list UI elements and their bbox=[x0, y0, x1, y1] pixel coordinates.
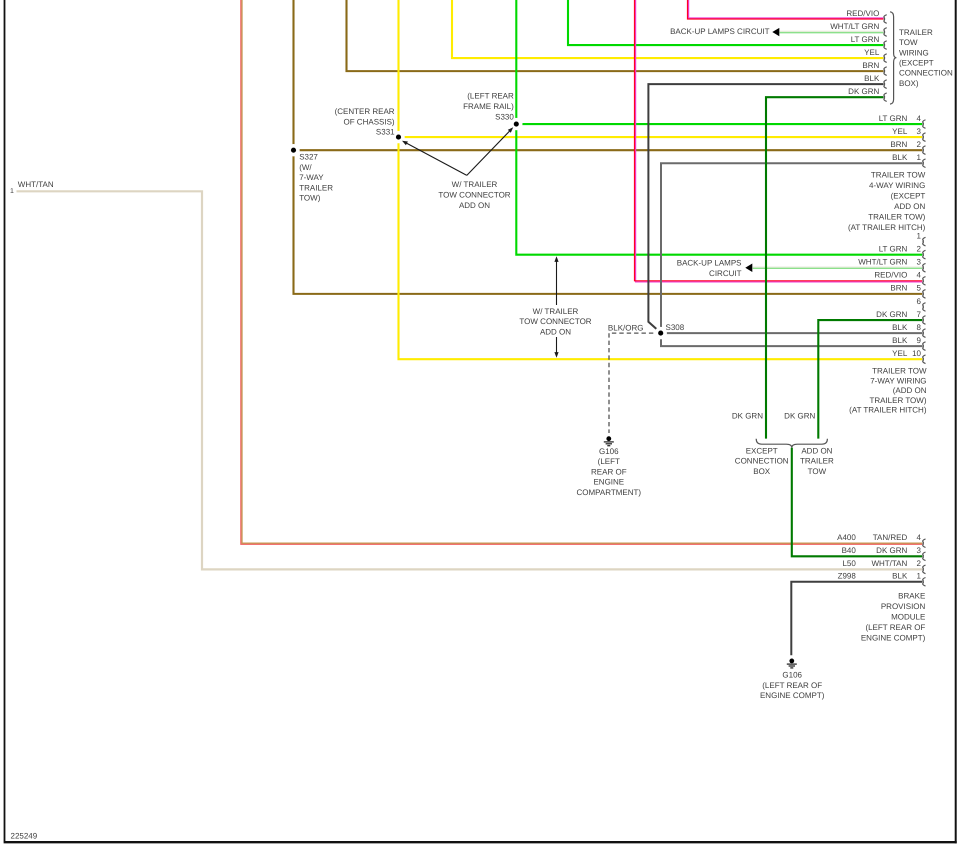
svg-text:1: 1 bbox=[10, 188, 14, 195]
svg-text:TRAILER: TRAILER bbox=[299, 183, 333, 192]
svg-text:ADD ON: ADD ON bbox=[894, 202, 925, 211]
svg-text:BRN: BRN bbox=[890, 140, 907, 149]
svg-text:7: 7 bbox=[917, 310, 922, 319]
svg-text:(LEFT REAR OF: (LEFT REAR OF bbox=[762, 681, 822, 690]
svg-text:ENGINE COMPT): ENGINE COMPT) bbox=[861, 633, 926, 642]
svg-text:2: 2 bbox=[917, 244, 922, 253]
svg-text:TRAILER: TRAILER bbox=[899, 28, 933, 37]
svg-text:G106: G106 bbox=[782, 671, 802, 680]
svg-text:B40: B40 bbox=[842, 546, 857, 555]
svg-text:WHT/LT GRN: WHT/LT GRN bbox=[830, 22, 879, 31]
svg-text:REAR OF: REAR OF bbox=[591, 467, 627, 476]
svg-text:(W/: (W/ bbox=[299, 163, 312, 172]
svg-text:S327: S327 bbox=[299, 153, 318, 162]
svg-text:ADD ON: ADD ON bbox=[459, 201, 490, 210]
svg-text:4: 4 bbox=[917, 533, 922, 542]
svg-text:BLK: BLK bbox=[892, 323, 908, 332]
svg-text:TRAILER TOW: TRAILER TOW bbox=[871, 171, 926, 180]
svg-text:G106: G106 bbox=[599, 447, 619, 456]
svg-text:COMPARTMENT): COMPARTMENT) bbox=[577, 488, 642, 497]
svg-text:3: 3 bbox=[917, 546, 922, 555]
svg-text:YEL: YEL bbox=[892, 349, 908, 358]
svg-text:9: 9 bbox=[917, 336, 922, 345]
svg-text:(AT TRAILER HITCH): (AT TRAILER HITCH) bbox=[848, 223, 926, 232]
svg-text:S331: S331 bbox=[376, 128, 395, 137]
svg-text:BOX: BOX bbox=[753, 467, 771, 476]
svg-text:ADD ON: ADD ON bbox=[801, 446, 832, 455]
svg-text:7-WAY WIRING: 7-WAY WIRING bbox=[870, 376, 926, 385]
svg-text:(LEFT REAR OF: (LEFT REAR OF bbox=[865, 623, 925, 632]
svg-text:2: 2 bbox=[917, 140, 922, 149]
svg-text:TOW): TOW) bbox=[299, 194, 321, 203]
svg-text:DK GRN: DK GRN bbox=[876, 310, 907, 319]
svg-text:WHT/TAN: WHT/TAN bbox=[18, 180, 54, 189]
svg-text:TOW CONNECTOR: TOW CONNECTOR bbox=[438, 191, 510, 200]
svg-text:BRN: BRN bbox=[890, 284, 907, 293]
svg-text:BLK/ORG: BLK/ORG bbox=[608, 323, 644, 332]
svg-text:LT GRN: LT GRN bbox=[879, 114, 908, 123]
svg-text:4: 4 bbox=[917, 114, 922, 123]
svg-text:TOW: TOW bbox=[899, 38, 918, 47]
svg-text:3: 3 bbox=[917, 258, 922, 267]
svg-text:S308: S308 bbox=[666, 323, 685, 332]
svg-text:DK GRN: DK GRN bbox=[784, 411, 815, 420]
svg-text:W/ TRAILER: W/ TRAILER bbox=[452, 180, 498, 189]
svg-text:LT GRN: LT GRN bbox=[851, 35, 880, 44]
svg-text:4-WAY WIRING: 4-WAY WIRING bbox=[869, 181, 925, 190]
svg-text:YEL: YEL bbox=[892, 127, 908, 136]
svg-text:2: 2 bbox=[917, 559, 922, 568]
svg-text:PROVISION: PROVISION bbox=[881, 602, 926, 611]
svg-text:DK GRN: DK GRN bbox=[732, 411, 763, 420]
svg-text:BLK: BLK bbox=[864, 74, 880, 83]
svg-text:(LEFT: (LEFT bbox=[598, 457, 620, 466]
svg-text:TRAILER TOW: TRAILER TOW bbox=[872, 367, 927, 376]
svg-text:(EXCEPT: (EXCEPT bbox=[891, 192, 926, 201]
svg-text:ENGINE: ENGINE bbox=[593, 478, 624, 487]
svg-text:FRAME RAIL): FRAME RAIL) bbox=[463, 102, 514, 111]
svg-text:6: 6 bbox=[917, 297, 922, 306]
svg-text:DK GRN: DK GRN bbox=[876, 546, 907, 555]
svg-text:4: 4 bbox=[917, 271, 922, 280]
svg-text:10: 10 bbox=[912, 349, 921, 358]
svg-text:A400: A400 bbox=[837, 533, 856, 542]
svg-text:MODULE: MODULE bbox=[891, 612, 925, 621]
svg-text:TOW CONNECTOR: TOW CONNECTOR bbox=[519, 317, 591, 326]
svg-text:3: 3 bbox=[917, 127, 922, 136]
svg-text:RED/VIO: RED/VIO bbox=[874, 271, 907, 280]
svg-text:BLK: BLK bbox=[892, 572, 908, 581]
svg-text:(LEFT REAR: (LEFT REAR bbox=[467, 92, 514, 101]
svg-text:TAN/RED: TAN/RED bbox=[873, 533, 908, 542]
svg-text:S330: S330 bbox=[495, 112, 514, 121]
svg-text:CONNECTION: CONNECTION bbox=[735, 457, 789, 466]
svg-text:CIRCUIT: CIRCUIT bbox=[709, 269, 742, 278]
svg-text:DK GRN: DK GRN bbox=[848, 87, 879, 96]
svg-text:RED/VIO: RED/VIO bbox=[846, 9, 879, 18]
svg-text:1: 1 bbox=[917, 572, 922, 581]
svg-text:EXCEPT: EXCEPT bbox=[746, 446, 778, 455]
svg-text:7-WAY: 7-WAY bbox=[299, 173, 324, 182]
svg-text:BACK-UP LAMPS: BACK-UP LAMPS bbox=[677, 259, 742, 268]
svg-text:WIRING: WIRING bbox=[899, 48, 929, 57]
svg-text:CONNECTION: CONNECTION bbox=[899, 69, 953, 78]
svg-text:BRAKE: BRAKE bbox=[898, 591, 925, 600]
svg-text:OF CHASSIS): OF CHASSIS) bbox=[343, 117, 394, 126]
svg-text:5: 5 bbox=[917, 284, 922, 293]
svg-text:BOX): BOX) bbox=[899, 79, 919, 88]
svg-text:TRAILER TOW): TRAILER TOW) bbox=[868, 213, 925, 222]
svg-text:TOW: TOW bbox=[808, 467, 827, 476]
svg-text:W/ TRAILER: W/ TRAILER bbox=[533, 307, 579, 316]
svg-text:Z998: Z998 bbox=[838, 572, 857, 581]
svg-text:WHT/TAN: WHT/TAN bbox=[871, 559, 907, 568]
svg-text:1: 1 bbox=[917, 153, 922, 162]
svg-text:YEL: YEL bbox=[864, 48, 880, 57]
svg-text:(ADD ON: (ADD ON bbox=[893, 386, 927, 395]
svg-text:BACK-UP LAMPS CIRCUIT: BACK-UP LAMPS CIRCUIT bbox=[670, 27, 770, 36]
svg-text:1: 1 bbox=[917, 231, 922, 240]
svg-text:LT GRN: LT GRN bbox=[879, 244, 908, 253]
svg-text:BLK: BLK bbox=[892, 153, 908, 162]
svg-text:(AT TRAILER HITCH): (AT TRAILER HITCH) bbox=[849, 406, 927, 415]
svg-text:8: 8 bbox=[917, 323, 922, 332]
svg-text:TRAILER: TRAILER bbox=[800, 457, 834, 466]
svg-text:BRN: BRN bbox=[862, 61, 879, 70]
svg-text:WHT/LT GRN: WHT/LT GRN bbox=[858, 258, 907, 267]
svg-text:ADD ON: ADD ON bbox=[540, 327, 571, 336]
svg-text:BLK: BLK bbox=[892, 336, 908, 345]
svg-text:TRAILER TOW): TRAILER TOW) bbox=[869, 396, 926, 405]
svg-text:(CENTER REAR: (CENTER REAR bbox=[335, 107, 395, 116]
svg-text:225249: 225249 bbox=[11, 832, 38, 841]
svg-text:(EXCEPT: (EXCEPT bbox=[899, 59, 934, 68]
svg-text:ENGINE COMPT): ENGINE COMPT) bbox=[760, 691, 825, 700]
svg-text:L50: L50 bbox=[842, 559, 856, 568]
